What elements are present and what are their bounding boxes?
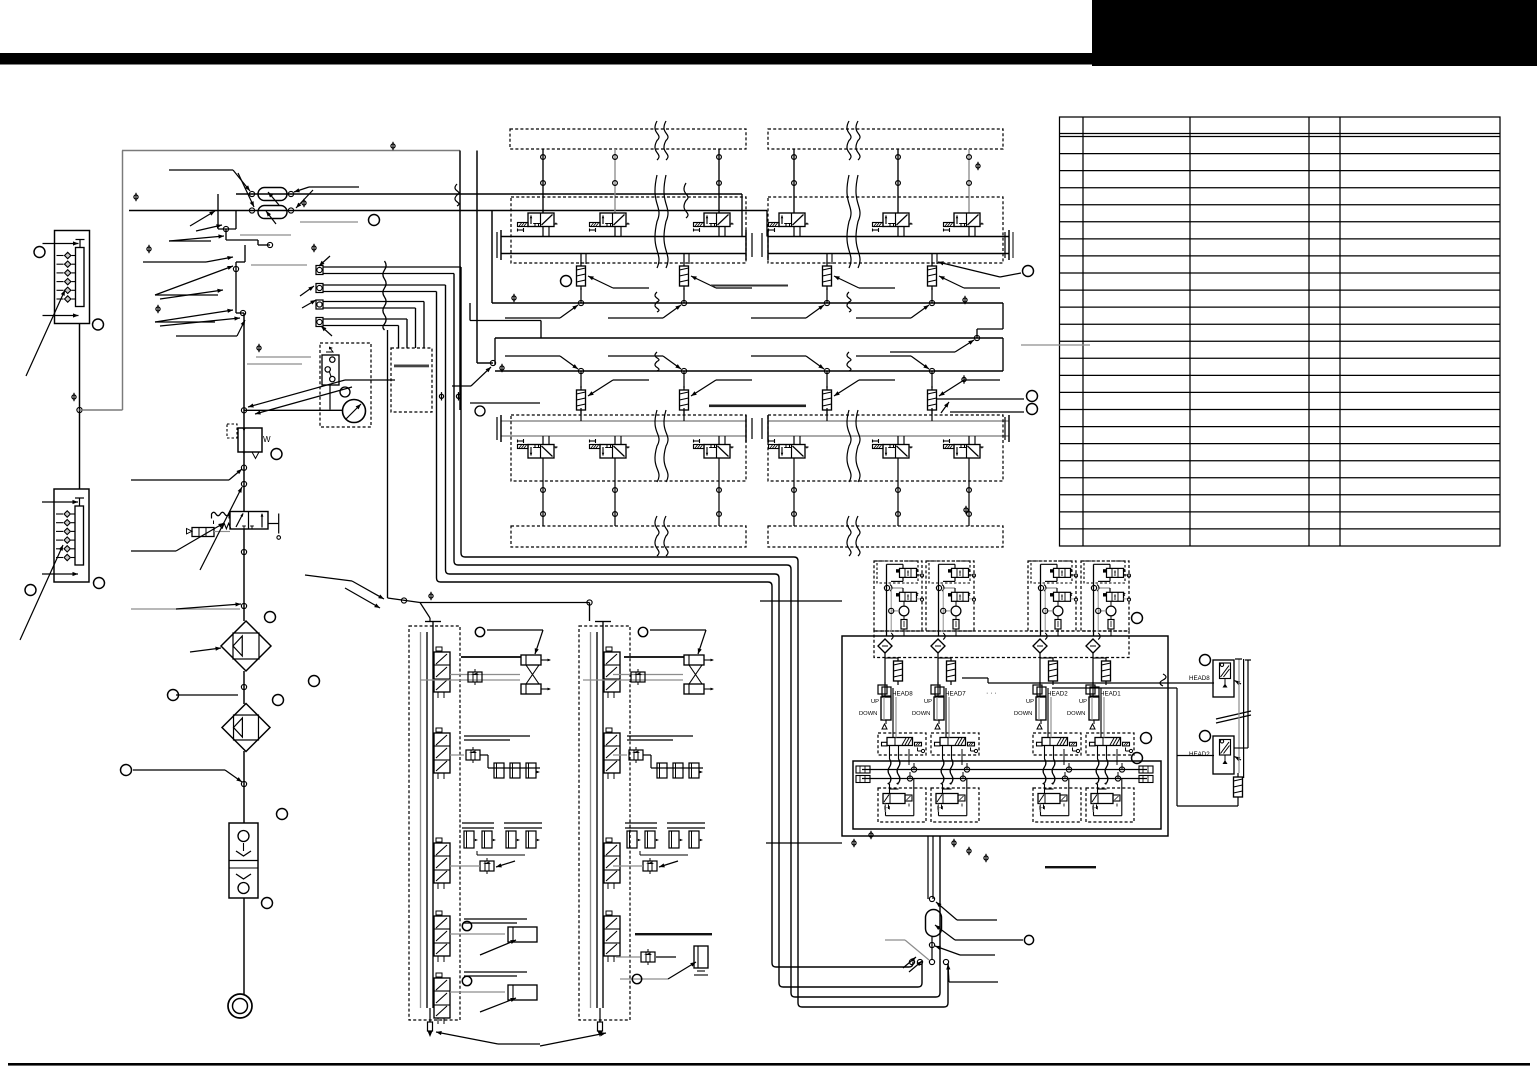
lubricator L1 — [229, 823, 258, 898]
port mark — [72, 395, 76, 399]
node — [1062, 776, 1067, 781]
head frame outer — [842, 636, 1168, 836]
pressure switch + gauge group — [320, 343, 371, 427]
regulator W1 — [238, 428, 262, 452]
valve A wires — [1094, 563, 1111, 565]
head pilot group (dashed) — [926, 561, 974, 631]
filter capsules upper — [580, 254, 582, 265]
pigtails — [1097, 746, 1099, 760]
centre link line lower — [709, 405, 806, 408]
node — [241, 481, 246, 486]
pressure gauge — [343, 400, 366, 423]
node — [889, 608, 894, 613]
head valve — [940, 738, 966, 746]
node — [267, 242, 272, 247]
lower head valve — [883, 794, 905, 804]
panel valve — [604, 843, 620, 883]
pilot circle — [1106, 606, 1116, 616]
leader stubs — [936, 902, 957, 920]
node — [911, 767, 916, 772]
pilot capsule — [901, 620, 907, 630]
node — [936, 585, 941, 590]
port mark — [257, 346, 261, 350]
node — [941, 608, 946, 613]
panel valve — [434, 843, 450, 883]
node — [578, 368, 583, 373]
svg-text:DOWN: DOWN — [859, 711, 877, 717]
reference balloon — [25, 585, 36, 596]
node — [884, 585, 889, 590]
small cylinders — [494, 763, 504, 778]
pilot valve A — [900, 568, 917, 577]
reference balloon — [561, 276, 572, 287]
cross fitting — [931, 685, 940, 694]
air filter F1 — [221, 621, 271, 671]
carriage bars — [625, 822, 657, 824]
node — [490, 360, 495, 365]
node — [1038, 585, 1043, 590]
panel valve — [434, 978, 450, 1018]
node — [917, 959, 922, 964]
solenoid valve — [528, 213, 554, 227]
node — [241, 408, 246, 413]
pigtail crossing — [383, 261, 386, 330]
lower head valve — [1091, 794, 1113, 804]
group wires — [1057, 601, 1059, 606]
manifold block (lower left) — [54, 489, 89, 582]
valve end marks — [1093, 805, 1095, 810]
port mark — [984, 856, 988, 860]
node — [587, 600, 592, 605]
wire — [470, 402, 540, 404]
wires valves to cylinders lower — [542, 458, 544, 526]
valve end marks — [885, 805, 887, 810]
svg-text:UP: UP — [924, 699, 932, 705]
cross fitting — [878, 685, 887, 694]
node — [1043, 608, 1048, 613]
node — [929, 942, 934, 947]
panel valve — [434, 733, 450, 773]
cylinder group box top-left (dashed) — [510, 129, 746, 149]
cylinder — [934, 697, 944, 720]
node — [681, 368, 686, 373]
reference balloon — [1027, 391, 1038, 402]
wire — [225, 229, 227, 240]
svg-text:DOWN: DOWN — [1067, 711, 1085, 717]
frame drop wires — [927, 836, 929, 899]
manifold block (upper left) — [55, 231, 90, 324]
panel valve — [604, 733, 620, 773]
leader lines — [256, 356, 311, 358]
node — [1119, 767, 1124, 772]
solenoid valve — [779, 213, 805, 227]
port mark — [963, 298, 967, 302]
supply line B — [129, 210, 767, 212]
group wires — [903, 601, 905, 606]
speed controller — [629, 750, 643, 760]
node — [241, 465, 246, 470]
valve loop wires — [938, 809, 940, 816]
pilot valve A — [952, 568, 969, 577]
node — [1091, 585, 1096, 590]
cylinder — [881, 697, 891, 720]
wire top rail — [122, 150, 460, 152]
node — [943, 959, 948, 964]
head pilot group (dashed) — [1028, 561, 1076, 631]
svg-text:DOWN: DOWN — [912, 711, 930, 717]
port mark — [134, 195, 138, 199]
panel1 row5 — [464, 971, 527, 973]
wire — [122, 151, 124, 411]
reference balloon — [121, 765, 132, 776]
node — [824, 368, 829, 373]
parts table — [1060, 117, 1501, 546]
port mark — [302, 201, 306, 205]
break slashes — [1216, 711, 1251, 719]
speed controller — [480, 861, 494, 871]
node — [929, 368, 934, 373]
node — [1066, 767, 1071, 772]
remote capsule — [1234, 777, 1243, 797]
wavy breaks lower bank — [655, 352, 659, 371]
reference balloon — [1024, 935, 1033, 944]
wire — [884, 653, 886, 684]
lower head valve — [936, 794, 958, 804]
row feed — [613, 754, 627, 756]
reference balloon — [1023, 266, 1034, 277]
panel 1 rails — [420, 632, 422, 1008]
wires cylinders to valves — [542, 149, 544, 213]
small cylinders under bar — [464, 831, 474, 848]
small cylinders — [657, 763, 667, 778]
double bar — [627, 735, 693, 737]
node — [960, 776, 965, 781]
port mark — [147, 247, 151, 251]
node — [401, 598, 406, 603]
remote HEAD8 valve — [1213, 660, 1234, 697]
junction box wires — [217, 194, 219, 229]
svg-text:UP: UP — [1079, 699, 1087, 705]
reference balloon — [273, 695, 284, 706]
panel valve — [604, 916, 620, 956]
panel valve — [434, 916, 450, 956]
wire into frame — [760, 600, 842, 602]
manifold rail lower — [501, 420, 746, 422]
link line dark — [1045, 866, 1096, 868]
svg-text:HEAD1: HEAD1 — [1100, 691, 1121, 698]
reference balloon — [638, 627, 647, 636]
wire — [1092, 653, 1094, 684]
capsule — [938, 657, 951, 659]
valve exhaust — [1125, 748, 1127, 752]
port mark — [156, 307, 160, 311]
wire step — [470, 320, 541, 322]
valve exhaust — [917, 748, 919, 752]
node — [77, 407, 82, 412]
reference balloon — [309, 676, 320, 687]
junction oval — [926, 910, 942, 937]
node — [241, 684, 246, 689]
reference balloon — [462, 976, 471, 985]
node — [240, 310, 245, 315]
reference balloon — [475, 627, 484, 636]
tiny arrows — [903, 957, 916, 968]
pilot valve B — [1054, 592, 1071, 601]
wire — [459, 151, 461, 411]
quick exhaust valve QE1 — [258, 188, 287, 201]
reference balloon — [271, 449, 282, 460]
node — [249, 208, 254, 213]
solenoid valve — [883, 445, 909, 459]
pilot valve B — [1107, 592, 1124, 601]
panel 1 (dashed) — [409, 626, 460, 1020]
reference balloon — [1132, 613, 1143, 624]
centre link line upper — [711, 285, 788, 287]
thick link — [461, 656, 521, 658]
panel 2 (dashed) — [579, 626, 630, 1020]
lower valve box (dashed) — [1033, 788, 1081, 822]
wire — [1176, 756, 1178, 807]
port mark — [439, 394, 443, 398]
reference balloon — [262, 898, 273, 909]
pigtails — [1044, 746, 1046, 760]
compressor / source — [228, 994, 252, 1018]
wire — [79, 324, 81, 489]
filter capsules lower — [580, 371, 582, 388]
head pilot group (dashed) — [874, 561, 922, 631]
port mark — [456, 394, 460, 398]
manifold rail upper — [501, 236, 746, 238]
port mark — [312, 246, 316, 250]
svg-text:W: W — [263, 435, 271, 444]
node — [223, 226, 228, 231]
leader — [890, 351, 955, 353]
valve loop wires — [885, 809, 887, 816]
detent symbol — [212, 512, 230, 518]
port mark — [967, 849, 971, 853]
node — [578, 300, 583, 305]
panel 2 rails — [590, 632, 592, 1008]
port mark — [391, 144, 395, 148]
node — [964, 767, 969, 772]
wire — [937, 653, 939, 684]
pilot valve A — [1054, 568, 1071, 577]
remote riser wires — [1238, 659, 1240, 773]
quick exhaust valve QE2 — [258, 206, 287, 219]
pilot valve B — [952, 592, 969, 601]
cyl wires — [1100, 688, 1102, 738]
reference balloon — [1200, 731, 1211, 742]
node — [241, 781, 246, 786]
solenoid valve — [883, 213, 909, 227]
manifold bar — [394, 365, 429, 368]
carriage bars — [462, 822, 494, 824]
panel top feeds — [420, 602, 590, 604]
valve B wires — [1098, 587, 1110, 589]
svg-text:HEAD2: HEAD2 — [1189, 751, 1210, 758]
head valve box (dashed) — [1086, 733, 1134, 755]
capsule — [1040, 657, 1053, 659]
header rule bar — [0, 53, 1092, 65]
port mark — [964, 508, 968, 512]
solenoid valve — [779, 445, 805, 459]
solenoid valve — [954, 213, 980, 227]
cylinder pair — [521, 655, 541, 665]
pilot capsule — [1055, 620, 1061, 630]
node — [233, 266, 238, 271]
reference balloon — [93, 319, 104, 330]
wire to remote HEAD2 — [1052, 687, 1177, 689]
lower valve box (dashed) — [931, 788, 979, 822]
head frame inner — [853, 761, 1161, 829]
lower head valve — [1038, 794, 1060, 804]
filter diamond — [878, 639, 892, 653]
bundle connectors — [316, 266, 323, 275]
frame lower link — [766, 842, 842, 844]
reference balloon — [34, 247, 45, 258]
valve A wires — [887, 563, 904, 565]
spring M — [222, 523, 231, 529]
pilot valve B — [900, 592, 917, 601]
capsule — [1093, 657, 1106, 659]
panel bottom connectors — [428, 1022, 433, 1031]
leader long — [200, 487, 242, 570]
node — [288, 191, 293, 196]
port mark — [500, 366, 504, 370]
valve loop wires — [1040, 809, 1042, 816]
pilot capsule — [1108, 620, 1114, 630]
valve B wires — [891, 587, 903, 589]
row feed lines — [450, 674, 520, 676]
right pilot tee — [268, 523, 279, 525]
reference balloon — [462, 921, 471, 930]
node — [929, 959, 934, 964]
reference balloon — [1141, 733, 1152, 744]
cyl wires — [1047, 688, 1049, 738]
wire to remote HEAD8 — [988, 682, 1214, 684]
panel valve — [604, 652, 620, 692]
leader to valve — [176, 523, 224, 551]
wire bundle — [323, 266, 461, 268]
lower valve box (dashed) — [878, 788, 926, 822]
leader lines to QE — [169, 169, 233, 171]
wire long route — [454, 274, 940, 998]
capsule — [885, 657, 898, 659]
cross fitting — [1086, 685, 1095, 694]
svg-text:UP: UP — [1026, 699, 1034, 705]
panel2 row4 — [635, 933, 712, 935]
panel valve — [434, 652, 450, 692]
solenoid valve — [600, 213, 626, 227]
pigtails — [942, 746, 944, 760]
reference balloon — [1027, 404, 1038, 415]
head group outer dashed — [874, 631, 1129, 658]
valve A wires — [1041, 563, 1058, 565]
solenoid valve — [600, 445, 626, 459]
svg-text:HEAD2: HEAD2 — [1047, 691, 1068, 698]
cyl wires — [892, 688, 894, 738]
air filter F2 — [222, 704, 270, 752]
cylinder group box top-right (dashed) — [768, 129, 1003, 149]
valve B wires — [1045, 587, 1057, 589]
solenoid valve — [528, 445, 554, 459]
valve bank upper (dashed) — [511, 197, 746, 263]
reference balloon — [94, 578, 105, 589]
double bar — [464, 735, 530, 737]
cylinder — [1036, 697, 1046, 720]
filter diamond — [1033, 639, 1047, 653]
node — [241, 549, 246, 554]
pigtails — [889, 746, 891, 760]
reference balloon — [277, 809, 288, 820]
wire — [476, 151, 478, 364]
bank left feeder — [491, 211, 493, 304]
thick link — [624, 656, 684, 658]
wavy break on supply lines — [455, 184, 459, 206]
cylinder pair — [684, 655, 704, 665]
bus line 2 — [495, 337, 1003, 339]
leader arrows to connectors — [319, 256, 330, 266]
pilot valve — [192, 528, 214, 537]
node — [1096, 608, 1101, 613]
lower valve box (dashed) — [1086, 788, 1134, 822]
leader — [300, 221, 358, 223]
wire ladder — [244, 245, 246, 262]
port mark — [962, 377, 966, 381]
node — [249, 191, 254, 196]
node — [909, 959, 914, 964]
valve bank lower (dashed) — [511, 415, 746, 481]
manifold box (dashed) — [391, 348, 432, 412]
node — [681, 300, 686, 305]
wire long route — [446, 285, 923, 987]
svg-text:· · ·: · · · — [986, 690, 997, 697]
port mark — [429, 594, 433, 598]
speed controller — [468, 672, 482, 682]
svg-text:DOWN: DOWN — [1014, 711, 1032, 717]
wire gauge stem — [244, 409, 342, 411]
pilot capsule — [953, 620, 959, 630]
head valve — [1095, 738, 1121, 746]
head valve box (dashed) — [1033, 733, 1081, 755]
wire — [1039, 653, 1041, 684]
reference balloon — [168, 690, 179, 701]
valve loop wires — [1093, 809, 1095, 816]
pilot valve A — [1107, 568, 1124, 577]
wire bypass drop — [387, 330, 389, 598]
pilot circle — [899, 606, 909, 616]
leader to manifold — [26, 290, 65, 376]
group wires — [955, 601, 957, 606]
speed controller — [466, 750, 480, 760]
valve end marks — [1040, 805, 1042, 810]
valve end marks — [938, 805, 940, 810]
filter diamond — [1086, 639, 1100, 653]
speed controller — [631, 672, 645, 682]
node — [974, 335, 979, 340]
page bottom rule — [8, 1063, 1530, 1066]
svg-text:UP: UP — [871, 699, 879, 705]
bus stubs with arrows — [505, 317, 560, 319]
gray guide lines — [240, 234, 291, 236]
header title block (black) — [1092, 0, 1537, 66]
valve B wires — [943, 587, 955, 589]
cyl wires — [945, 688, 947, 738]
valve A wires — [939, 563, 956, 565]
wire long route — [461, 267, 948, 1007]
wire stub — [131, 608, 240, 610]
head pilot group (dashed) — [1081, 561, 1129, 631]
